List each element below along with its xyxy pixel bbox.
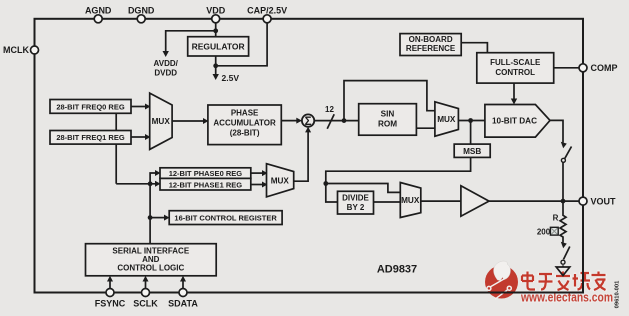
svg-text:12-BIT PHASE0 REG: 12-BIT PHASE0 REG [169,169,243,178]
svg-text:CONTROL LOGIC: CONTROL LOGIC [117,264,184,273]
svg-text:DIVIDE: DIVIDE [342,194,369,203]
svg-text:SIN: SIN [381,110,395,119]
svg-text:MCLK: MCLK [3,45,29,55]
svg-text:REGULATOR: REGULATOR [192,42,245,52]
svg-text:MUX: MUX [437,115,456,124]
svg-text:MUX: MUX [271,176,290,185]
svg-text:AGND: AGND [85,6,112,16]
svg-text:28-BIT FREQ1 REG: 28-BIT FREQ1 REG [56,133,125,142]
svg-text:28-BIT FREQ0 REG: 28-BIT FREQ0 REG [56,102,125,111]
svg-text:VOUT: VOUT [591,196,617,206]
svg-text:10-BIT DAC: 10-BIT DAC [492,117,537,126]
svg-text:AD9837: AD9837 [377,263,417,275]
svg-text:DVDD: DVDD [154,69,177,78]
svg-text:ON-BOARD: ON-BOARD [409,35,453,44]
svg-text:SDATA: SDATA [168,299,198,309]
svg-text:12-BIT PHASE1 REG: 12-BIT PHASE1 REG [169,180,243,189]
svg-text:CONTROL: CONTROL [495,68,535,77]
svg-text:REFERENCE: REFERENCE [406,44,456,53]
svg-text:PHASE: PHASE [231,109,259,118]
svg-text:MUX: MUX [401,196,420,205]
svg-text:2.5V: 2.5V [222,73,240,83]
svg-text:FSYNC: FSYNC [95,299,126,309]
svg-text:FULL-SCALE: FULL-SCALE [490,58,541,67]
svg-text:200: 200 [537,228,551,237]
svg-text:BY 2: BY 2 [347,203,365,212]
svg-text:R: R [553,214,559,223]
svg-text:16-BIT CONTROL REGISTER: 16-BIT CONTROL REGISTER [174,214,277,223]
svg-text:CAP/2.5V: CAP/2.5V [247,6,287,16]
svg-text:MUX: MUX [152,117,171,126]
svg-text:ROM: ROM [378,120,397,129]
svg-text:Σ: Σ [305,116,312,128]
svg-text:12: 12 [325,105,334,114]
svg-text:MSB: MSB [463,147,481,156]
svg-text:SCLK: SCLK [133,299,158,309]
svg-text:(28-BIT): (28-BIT) [230,128,260,137]
svg-text:VDD: VDD [206,6,226,16]
svg-text:DGND: DGND [128,6,155,16]
svg-text:COMP: COMP [591,63,618,73]
svg-text:AVDD/: AVDD/ [154,59,179,68]
svg-text:09610-001: 09610-001 [615,280,621,308]
svg-text:ACCUMULATOR: ACCUMULATOR [213,119,276,128]
